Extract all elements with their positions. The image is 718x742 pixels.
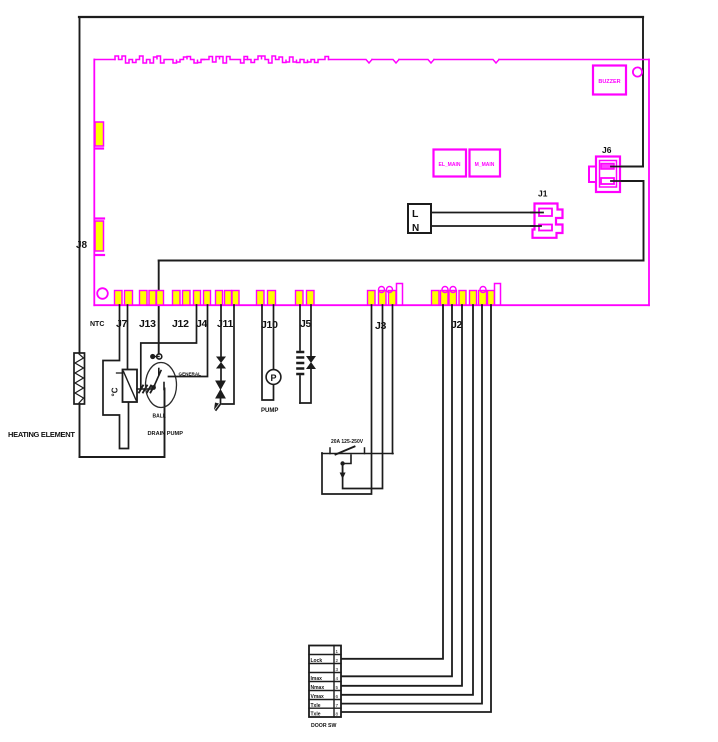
svg-text:5: 5 [336,685,339,690]
connector J4 pads [194,291,211,306]
wire J11 pin1 [220,305,222,357]
wire long horizontal net from J6 [159,260,644,262]
board right edge [648,60,650,306]
svg-text:DRAIN PUMP: DRAIN PUMP [148,431,184,437]
mechanical link thermostat to motor switch [137,386,155,393]
wire mains bottom run to motor [80,389,165,458]
connector J12 pads [173,291,191,306]
wire J6 pin1 to right edge [613,166,643,168]
heating element R1 body [74,353,85,404]
wire J2-3 [341,305,462,686]
wire J6 net drop to motor dots [158,261,160,353]
label GENERAL [179,372,202,377]
svg-text:GENERAL: GENERAL [179,372,202,377]
wire J2-6 [341,305,491,712]
wire mains top edge [79,16,643,18]
connector J6 housing [589,157,620,193]
wire J4 to motor right contact [169,305,208,377]
label DRAIN PUMP [148,431,184,437]
svg-text:1: 1 [336,649,339,654]
label NTC [90,321,104,328]
svg-text:4: 4 [336,676,339,681]
svg-text:P: P [270,373,276,383]
valve V3 [307,356,316,368]
svg-text:J10: J10 [261,319,278,331]
label J11 [217,318,233,330]
motor switch lever [154,369,165,390]
label switch rating [331,439,364,445]
wire mains left edge lower [79,404,81,457]
svg-text:Nmax: Nmax [311,685,325,691]
terminal block body [309,646,341,718]
label J6 [602,145,612,155]
board left edge [93,60,95,306]
buzzer box [593,66,626,95]
label under terminal block [311,723,336,729]
label J13 [139,318,156,330]
valve V1 [217,357,226,368]
connector J7 pads [115,291,133,306]
svg-text:3: 3 [336,667,339,672]
svg-text:N: N [412,223,419,234]
wire valve V1 to V2 [220,368,222,381]
label BALL [153,414,166,420]
contact dots above motor [150,354,162,359]
wire J7 pin2 to thermostat top [127,305,129,370]
connector J13 pads [140,291,164,306]
svg-text:Imax: Imax [311,676,323,682]
svg-text:8: 8 [336,712,339,717]
switch NC contact [340,455,351,466]
wire J11 pin2 return [222,305,234,404]
svg-text:J1: J1 [538,189,548,199]
svg-text:NTC: NTC [90,321,104,328]
connector J3 pads [368,287,397,306]
wire J2-5 [341,305,482,704]
wire J6 pin2 down right side [613,181,644,261]
svg-text:J13: J13 [139,318,156,330]
svg-text:J5: J5 [300,318,312,330]
svg-text:HEATING ELEMENT: HEATING ELEMENT [8,430,75,439]
connector pad left group B (J8) [95,219,104,256]
svg-text:Lock: Lock [311,658,323,664]
pump motor P [266,370,281,385]
svg-text:BUZZER: BUZZER [598,79,620,85]
relay EL_MAIN box [434,150,467,177]
label J2 [451,319,463,331]
connector J5 pads [296,291,315,306]
connector pad left group A [95,122,104,149]
svg-text:6: 6 [336,694,339,699]
svg-text:BALL: BALL [153,414,166,420]
svg-text:20A 125-250V: 20A 125-250V [331,439,364,445]
wire J3 pin1 outer loop [322,305,372,494]
board corner mounting hole [97,288,108,299]
valve V2 [216,381,226,398]
svg-text:J7: J7 [116,318,128,330]
svg-text:Txle: Txle [311,712,321,718]
wire J3 pin3 to switch common [392,305,394,454]
wire J12 net to link point [141,305,197,389]
wire mains right edge upper [642,17,644,167]
svg-text:J8: J8 [76,240,88,251]
svg-text:2: 2 [336,658,339,663]
terminal block pin numbers [336,649,339,717]
supply box L N [408,204,431,234]
label J12 [172,318,189,330]
motor body circle [146,363,177,408]
label PUMP [261,408,278,414]
motor common dot [151,385,156,390]
svg-text:J6: J6 [602,145,612,155]
label HEATING ELEMENT [8,430,75,439]
board bottom edge [94,304,649,306]
svg-text:Vmax: Vmax [311,694,325,700]
terminal block row labels [311,658,325,718]
svg-text:J3: J3 [375,320,387,332]
label J7 [116,318,128,330]
wire L to J1 [431,212,543,214]
svg-text:J12: J12 [172,318,189,330]
wire J2-1 [341,305,443,659]
wire N to J1 [431,225,539,227]
connector J2 pads [432,287,495,306]
thermostat body [117,370,138,403]
board edge bump after J2 [495,284,501,306]
svg-text:M_MAIN: M_MAIN [475,162,495,168]
label J1 [538,189,548,199]
board top edge with notches [94,56,649,63]
wire J7 pin1 loop to thermostat bottom [103,305,129,449]
board edge bump after J3 [397,284,403,306]
label J3 [375,320,387,332]
wire valve outlet with arrow [214,398,221,410]
wire J10 pin2 [273,305,275,370]
wire stubs into J6 slots [611,167,643,182]
wire stubs into J1 slots [531,213,543,227]
svg-text:PUMP: PUMP [261,408,278,414]
connector J1 housing [533,204,563,238]
svg-text:EL_MAIN: EL_MAIN [439,162,461,168]
connector J10 pads [257,291,276,306]
wire mains left edge upper [79,17,81,353]
svg-text:J4: J4 [196,318,208,330]
board top-right mounting hole [633,67,642,76]
label J8 [76,240,88,251]
svg-text:Txle: Txle [311,703,321,709]
wire J3 pin2 inner loop [343,305,383,489]
wire J5 pin2 [300,305,311,403]
wire J5 pin1 with heater marks [298,305,304,403]
connector J11 pads [216,291,240,306]
svg-text:L: L [412,208,419,220]
label J5 [300,318,312,330]
wire J2-2 [341,305,452,676]
label J4 [196,318,208,330]
relay M_MAIN box [470,150,501,177]
svg-text:DOOR SW: DOOR SW [311,723,336,729]
svg-text:7: 7 [336,703,339,708]
label J10 [261,319,278,331]
svg-text:J11: J11 [217,318,233,330]
switch actuator arrow [340,465,346,479]
wire J2-4 [341,305,473,695]
switch S1 throw bar [322,447,393,455]
label degC [111,387,120,396]
svg-text:°C: °C [111,387,120,396]
wire J10 pin1 [262,305,274,400]
